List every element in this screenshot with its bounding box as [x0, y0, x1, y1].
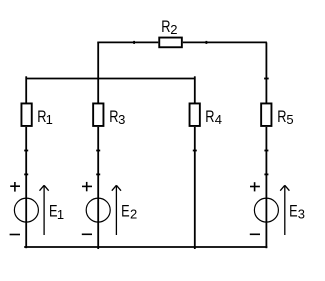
- svg-text:E: E: [121, 203, 130, 221]
- label E2: [121, 203, 137, 222]
- wire R5 branch lower: [265, 127, 267, 198]
- plus sign of E2: [82, 182, 92, 191]
- wire middle horizontal: [26, 78, 195, 80]
- label R3: [109, 109, 125, 127]
- wire R4 branch upper: [194, 79, 196, 103]
- minus sign of E2: [82, 233, 92, 235]
- junction nub at middle-wire right corner: [194, 76, 196, 78]
- resistor R5 body: [261, 103, 271, 126]
- wire through E2: [97, 198, 99, 222]
- wire top-left (from R3 branch to R2): [97, 41, 158, 43]
- source E3 circle: [254, 198, 278, 222]
- resistor R4 body: [190, 103, 200, 126]
- minus sign of E1: [10, 234, 20, 236]
- wire E3 to bottom: [265, 222, 267, 248]
- wire R1 branch lower: [25, 127, 27, 198]
- junction nub bottom-left corner: [24, 246, 26, 248]
- label R2: [161, 19, 177, 37]
- label E3: [289, 203, 305, 221]
- junction tick on top wire right: [205, 41, 207, 44]
- junction tick on R5 branch upper: [264, 78, 269, 80]
- svg-text:3: 3: [118, 112, 125, 127]
- wire R4 branch lower (no source): [194, 127, 196, 249]
- svg-text:R: R: [161, 19, 170, 37]
- wire through E3: [265, 198, 267, 222]
- source E1 circle: [14, 198, 38, 222]
- svg-text:1: 1: [57, 207, 64, 222]
- svg-text:3: 3: [298, 206, 305, 221]
- svg-text:R: R: [277, 109, 286, 127]
- junction nub at middle-wire left corner: [25, 76, 27, 78]
- minus sign of E3: [250, 233, 260, 235]
- junction tick on R3 branch at source top: [96, 173, 100, 175]
- resistor R3 body: [93, 103, 103, 126]
- svg-text:1: 1: [46, 112, 53, 127]
- svg-text:R: R: [205, 109, 214, 127]
- label R5: [277, 109, 293, 127]
- svg-text:E: E: [289, 203, 298, 221]
- junction tick on R3 branch: [96, 150, 100, 152]
- label E1: [49, 203, 64, 222]
- wire through E1: [25, 198, 27, 222]
- junction tick on R5 branch at source top: [264, 173, 268, 175]
- svg-text:4: 4: [215, 112, 222, 127]
- wire R3 branch lower: [97, 127, 99, 198]
- plus sign of E1: [10, 182, 20, 192]
- plus sign of E3: [250, 182, 260, 191]
- resistor R1 body: [21, 103, 31, 126]
- junction tick on top wire left: [133, 41, 135, 44]
- junction tick on R1 branch: [24, 150, 28, 152]
- wire vertical from top wire down to middle wire at x=98: [97, 42, 99, 78]
- wire R5 branch upper: [265, 42, 267, 102]
- source E2 circle: [86, 198, 110, 222]
- label R4: [205, 109, 222, 127]
- arrow E1: [40, 185, 49, 235]
- junction tick on R1 branch at source top: [24, 173, 28, 175]
- svg-text:5: 5: [286, 112, 293, 127]
- wire bottom horizontal: [25, 246, 267, 248]
- svg-text:R: R: [109, 109, 118, 127]
- resistor R2 body: [159, 38, 182, 48]
- arrow E3: [280, 185, 289, 235]
- wire E1 to bottom: [25, 222, 27, 248]
- junction tick on R4 branch: [193, 150, 197, 152]
- junction tick on R5 branch lower: [264, 150, 268, 152]
- wire R3 branch upper: [97, 79, 99, 103]
- arrow E2: [112, 185, 121, 235]
- wire top-right (R2 to R5 branch): [183, 41, 267, 43]
- wire E2 to bottom: [97, 222, 99, 249]
- svg-text:2: 2: [170, 22, 177, 37]
- label R1: [37, 109, 53, 127]
- svg-text:2: 2: [130, 207, 137, 222]
- wire R1 branch upper: [25, 79, 27, 103]
